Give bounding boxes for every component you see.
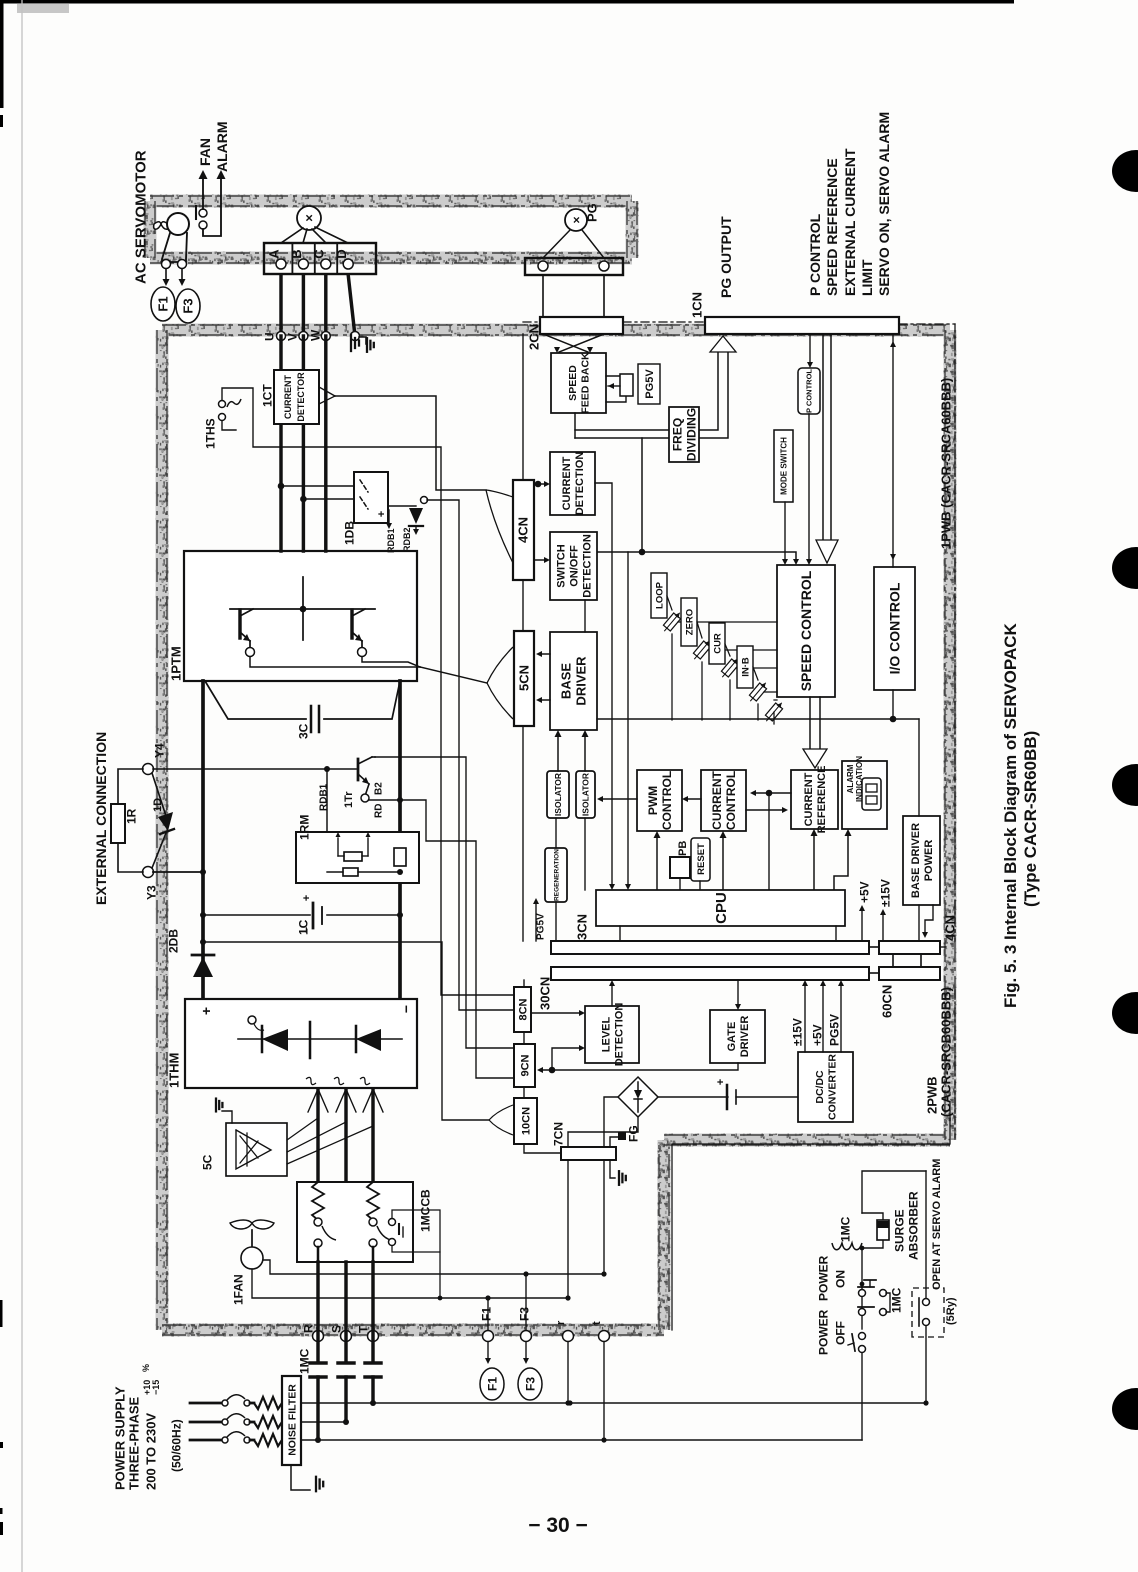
- main minus bus: [398, 681, 402, 999]
- wire RDB2 to 8CN: [427, 500, 514, 1010]
- wire base driver power path: [597, 718, 919, 720]
- 5C earth: [222, 1111, 232, 1123]
- svg-text:×: ×: [569, 216, 583, 223]
- svg-text:EXTERNAL CURRENT: EXTERNAL CURRENT: [842, 148, 858, 296]
- svg-text:FAN: FAN: [197, 138, 213, 166]
- wire 7CN to t terminal: [603, 1160, 605, 1274]
- wire coil top rail: [862, 1171, 926, 1213]
- svg-text:REGENERATION: REGENERATION: [553, 849, 560, 901]
- arrow level detection to 30CN bus: [611, 986, 613, 1006]
- arrow 8CN to level detection: [531, 1012, 581, 1014]
- svg-text:2PWB: 2PWB: [925, 1076, 940, 1114]
- IN-B potentiometer: [737, 646, 753, 688]
- svg-text:PB: PB: [677, 841, 689, 856]
- svg-text:%: %: [141, 1364, 151, 1372]
- svg-text:3CN: 3CN: [575, 914, 590, 940]
- svg-text:FEED BACK: FEED BACK: [580, 352, 592, 414]
- 2PWB edge links: [523, 980, 525, 987]
- arrow current ref to current control: [754, 792, 791, 794]
- 5Ry contact box dashed: [912, 1288, 944, 1337]
- hollow arrow shaft speed feedback to 1CN: [574, 413, 576, 438]
- svg-text:4CN: 4CN: [516, 517, 531, 543]
- 1MCCB breaker box: [297, 1182, 413, 1262]
- 1MCCB aux contact: [389, 1219, 396, 1226]
- wire gate driver to 9CN: [541, 1063, 738, 1070]
- svg-text:1D: 1D: [152, 798, 164, 812]
- FG terminal: [610, 1137, 622, 1147]
- svg-text:1FAN: 1FAN: [231, 1274, 245, 1305]
- connector 5CN bar: [514, 631, 534, 726]
- svg-text:− 30 −: − 30 −: [528, 1514, 588, 1537]
- svg-text:POWER: POWER: [923, 840, 935, 882]
- svg-text:F3: F3: [181, 298, 196, 313]
- svg-text:DETECTION: DETECTION: [582, 534, 594, 598]
- 1THM ac entries: [308, 1089, 328, 1112]
- PG winding circle: [565, 209, 587, 231]
- svg-text:Fig. 5. 3 Internal Block Dia: Fig. 5. 3 Internal Block Diagram of SERV…: [1001, 622, 1020, 1008]
- svg-text:CUR: CUR: [712, 633, 723, 654]
- svg-text:RESET: RESET: [696, 843, 707, 875]
- 1THM diode 2: [355, 1026, 358, 1052]
- 5C phase taps: [287, 1118, 318, 1140]
- 1PTM collector rail: [230, 608, 375, 610]
- motor enclosure border: [150, 195, 632, 208]
- main plus bus nodes: [200, 869, 206, 875]
- svg-text:AC SERVOMOTOR: AC SERVOMOTOR: [132, 150, 149, 284]
- wire C-W: [324, 275, 327, 330]
- wire Y3 to plus bus: [153, 871, 203, 873]
- +5V arrow right: [861, 911, 863, 941]
- svg-text:DIVIDING: DIVIDING: [684, 408, 698, 461]
- svg-text:R: R: [301, 1324, 315, 1333]
- svg-text:1THS: 1THS: [203, 418, 217, 449]
- wires 1MCCB to 1MC: [316, 1262, 319, 1360]
- svg-text:30CN: 30CN: [538, 977, 553, 1010]
- 9CN connector box: [514, 1044, 535, 1087]
- svg-text:ON/OFF: ON/OFF: [569, 545, 581, 587]
- svg-text:FG: FG: [626, 1125, 640, 1142]
- 1FAN wires: [252, 1269, 568, 1298]
- svg-text:ABSORBER: ABSORBER: [906, 1191, 920, 1260]
- 1PTM inverter box: [184, 551, 417, 681]
- svg-text:9CN: 9CN: [520, 1054, 532, 1076]
- battery capacitor symbol: [658, 1096, 728, 1098]
- svg-text:W: W: [308, 329, 322, 341]
- svg-text:RDB1: RDB1: [386, 528, 396, 553]
- motor fan glyph: [162, 223, 168, 225]
- BASE DRIVER POWER box: [903, 816, 940, 905]
- svg-text:+: +: [198, 1007, 214, 1015]
- 1MC contactor contacts: [310, 1361, 326, 1364]
- 1PWB board dashdot top: [523, 321, 540, 323]
- svg-text:DC/DC: DC/DC: [814, 1070, 826, 1104]
- F1 arrow top: [165, 269, 167, 280]
- arrow CPU to CURRENT REFERENCE: [813, 835, 815, 890]
- wire PB to CPU: [679, 878, 681, 890]
- arrow CPU to PWM: [656, 837, 658, 890]
- PG leads to 2CN: [542, 275, 544, 318]
- FAN arrow: [202, 178, 204, 209]
- transistor Q right: [350, 610, 353, 638]
- svg-text:+: +: [376, 511, 388, 517]
- ISOLATOR box 1: [547, 771, 569, 818]
- arrow 30CN bus to gate driver: [737, 980, 739, 1004]
- svg-text:POWER: POWER: [816, 1255, 830, 1301]
- svg-text:LOOP: LOOP: [654, 581, 665, 609]
- svg-text:SERVO ON, SERVO ALARM: SERVO ON, SERVO ALARM: [876, 112, 892, 296]
- resistor 1R: [111, 804, 125, 843]
- wire U into 1PTM: [279, 336, 282, 551]
- svg-text:P CONTROL: P CONTROL: [807, 213, 823, 296]
- connector 2CN bar: [540, 317, 623, 334]
- svg-text:ALARM: ALARM: [846, 764, 855, 793]
- svg-text:SPEED: SPEED: [567, 365, 579, 401]
- surge absorber element: [862, 1240, 883, 1248]
- ALARM arrow: [203, 178, 221, 236]
- svg-text:ZERO: ZERO: [684, 609, 695, 635]
- arrow current control to current ref: [746, 809, 784, 811]
- ZERO potentiometer: [681, 598, 697, 646]
- wire F3 up: [525, 1274, 527, 1330]
- node current loop: [766, 790, 773, 797]
- svg-text:CONTROL: CONTROL: [660, 771, 674, 830]
- supply input wires: [190, 1402, 222, 1405]
- wire F1 up: [487, 1298, 489, 1330]
- svg-text:1MC: 1MC: [889, 1287, 903, 1313]
- 2CN to speed feedback crossing arrows: [543, 334, 588, 352]
- svg-text:(5Ry): (5Ry): [945, 1297, 957, 1325]
- svg-text:CURRENT: CURRENT: [803, 772, 815, 826]
- svg-text:PG: PG: [585, 203, 600, 222]
- connector 1CN bar: [705, 317, 899, 334]
- svg-text:(CACR-SRCB60BBB): (CACR-SRCB60BBB): [939, 987, 954, 1117]
- rotated landscape diagram: [93, 112, 1040, 1491]
- 1PTM cable to 5CN bracket: [420, 667, 487, 683]
- noise filter earth: [291, 1465, 310, 1490]
- svg-text:CONVERTER: CONVERTER: [827, 1054, 839, 1120]
- svg-text:A: A: [267, 249, 282, 259]
- svg-text:1MC: 1MC: [838, 1216, 852, 1242]
- +5V arrow dcdc: [822, 986, 824, 1052]
- svg-text:+5V: +5V: [857, 881, 871, 903]
- svg-text:200 TO 230V: 200 TO 230V: [144, 1413, 159, 1490]
- svg-text:SURGE: SURGE: [892, 1209, 906, 1252]
- arrows base driver to 5CN: [540, 653, 550, 655]
- svg-text:V: V: [285, 333, 299, 341]
- motor winding leads: [281, 228, 303, 243]
- arrow CPU to ALARM INDICATION: [834, 835, 848, 890]
- motor body trapezoid: [162, 233, 187, 262]
- 1MCCB pole 1: [312, 1182, 324, 1220]
- svg-text:CURRENT: CURRENT: [561, 456, 573, 510]
- wire 7CN to r terminal: [567, 1160, 569, 1298]
- 3CN bus bar: [551, 941, 869, 954]
- ISOLATOR box 2: [576, 771, 595, 818]
- 1THM diode 1: [261, 1026, 264, 1052]
- 8CN connector box: [514, 987, 531, 1032]
- 1RM resistor c: [394, 848, 406, 866]
- svg-text:Y4: Y4: [152, 743, 166, 758]
- wire isolator1-regeneration: [555, 818, 557, 848]
- 1THS thermostat: [219, 401, 226, 408]
- svg-text:DRIVER: DRIVER: [574, 656, 589, 706]
- svg-text:DETECTOR: DETECTOR: [296, 372, 306, 422]
- 1PWB board dashdot right: [954, 324, 956, 941]
- svg-text:ISOLATOR: ISOLATOR: [553, 773, 563, 816]
- svg-text:7CN: 7CN: [551, 1122, 565, 1146]
- SPEED CONTROL box: [777, 565, 835, 697]
- 7CN earth: [610, 1160, 615, 1178]
- svg-text:F1: F1: [156, 296, 171, 311]
- PWM CONTROL box: [637, 770, 682, 831]
- svg-text:LIMIT: LIMIT: [859, 259, 875, 296]
- wire D-ground: [348, 275, 355, 336]
- connector 4CN bar: [513, 480, 534, 580]
- 1PWB edge link 2CN-4CN: [522, 334, 524, 480]
- svg-text:CURRENT: CURRENT: [283, 374, 293, 419]
- ground symbol motor lead: [350, 335, 352, 351]
- svg-text:10CN: 10CN: [521, 1107, 533, 1135]
- servopack enclosure border: [162, 324, 950, 337]
- svg-text:DRIVER: DRIVER: [739, 1016, 751, 1058]
- svg-text:CPU: CPU: [713, 892, 730, 924]
- svg-text:LEVEL: LEVEL: [601, 1016, 613, 1052]
- motor winding circle X: [297, 206, 321, 230]
- svg-text:PWM: PWM: [646, 786, 660, 815]
- svg-text:DETECTION: DETECTION: [574, 452, 586, 516]
- svg-text:3C: 3C: [296, 723, 310, 739]
- svg-text:1CT: 1CT: [260, 384, 274, 407]
- svg-text:PG5V: PG5V: [644, 369, 656, 399]
- scan crease line: [21, 0, 23, 1572]
- svg-text:1CN: 1CN: [690, 292, 705, 318]
- svg-text:60CN: 60CN: [880, 985, 895, 1018]
- 1CT cable to 4CN: [335, 396, 486, 490]
- GATE DRIVER box: [710, 1010, 765, 1063]
- 1CT current detector box: [274, 370, 319, 424]
- thyristor RDB2: [388, 505, 416, 507]
- 1CT output Y: [319, 387, 335, 396]
- svg-text:1THM: 1THM: [167, 1053, 182, 1088]
- svg-text:SPEED REFERENCE: SPEED REFERENCE: [824, 158, 840, 296]
- svg-text:−15: −15: [151, 1380, 161, 1395]
- hollow arrow speed control to current reference: [809, 697, 811, 749]
- svg-text:2DB: 2DB: [166, 929, 180, 953]
- 1THS wire: [222, 388, 514, 995]
- bus links between bars: [869, 946, 879, 948]
- R S T border terminals: [313, 1331, 324, 1342]
- svg-text:F1: F1: [485, 1377, 499, 1391]
- REGENERATION box: [545, 848, 567, 902]
- svg-text:(Type CACR-SR60BB): (Type CACR-SR60BB): [1021, 731, 1040, 907]
- svg-text:1RM: 1RM: [297, 815, 311, 840]
- terminal Y3: [143, 867, 154, 878]
- 10CN connector box: [514, 1098, 537, 1144]
- 1THM ac tildes: [306, 1077, 316, 1084]
- capacitor 1C: [203, 914, 310, 916]
- arrow isolator1 to base driver: [557, 736, 559, 771]
- node io control bottom: [892, 690, 894, 719]
- svg-text:2CN: 2CN: [527, 324, 542, 350]
- svg-text:RD: RD: [374, 804, 385, 818]
- motor terminal circles: [162, 260, 171, 269]
- svg-text:I/O CONTROL: I/O CONTROL: [887, 582, 903, 674]
- svg-text:t: t: [591, 1321, 603, 1325]
- scan left black strip: [0, 0, 4, 108]
- svg-text:POWER: POWER: [816, 1309, 830, 1355]
- svg-text:T: T: [356, 1325, 370, 1333]
- svg-text:PG OUTPUT: PG OUTPUT: [718, 216, 734, 298]
- right 4CN bus bar: [879, 941, 940, 954]
- alarm display icon: [862, 778, 881, 810]
- svg-text:±15V: ±15V: [878, 879, 892, 907]
- svg-text:5CN: 5CN: [517, 665, 532, 691]
- wire PG5V tap down to speed control: [641, 438, 643, 552]
- ground symbol frame: [359, 337, 366, 344]
- svg-text:BASE: BASE: [559, 663, 574, 699]
- arrow isolator2 to base driver: [584, 736, 586, 771]
- 1DB dynamic brake box: [354, 472, 388, 523]
- fan thermal contact circles: [199, 209, 207, 217]
- 1FAN fan: [230, 1220, 274, 1229]
- wire 5CN to 3CN board edge: [522, 726, 524, 941]
- 1PTM emitter wires to cable: [250, 657, 420, 667]
- DC/DC CONVERTER box: [798, 1052, 853, 1122]
- wire V into 1PTM: [302, 336, 305, 551]
- svg-text:+: +: [301, 895, 313, 901]
- speed feedback feedback resistor: [606, 375, 626, 377]
- arrow current control to pwm: [686, 798, 701, 800]
- wire A-U: [279, 275, 282, 330]
- transistor 1Tr: [357, 759, 360, 780]
- RDB1 arrow: [388, 510, 390, 524]
- wire current detection output to CPU: [595, 483, 612, 884]
- svg-text:P CONTROL: P CONTROL: [805, 369, 814, 413]
- wire Y4 chopper rail: [153, 768, 356, 770]
- OFF pushbutton: [859, 1333, 866, 1340]
- svg-text:4CN: 4CN: [943, 915, 958, 941]
- wire r down: [567, 1342, 569, 1403]
- wire diamond to 7CN: [604, 1097, 618, 1147]
- CPU to 3CN links: [619, 926, 621, 941]
- svg-text:8CN: 8CN: [518, 998, 530, 1020]
- svg-text:GATE: GATE: [726, 1022, 738, 1052]
- RESET boxed label: [691, 838, 710, 881]
- 1MC aux contact hold: [859, 1309, 866, 1316]
- svg-text:(50/60Hz): (50/60Hz): [169, 1419, 183, 1472]
- PG5V arrow at 3CN: [535, 902, 537, 941]
- wires phases to 1DB: [278, 483, 285, 490]
- arrow pwm output to isolator2: [601, 798, 637, 800]
- svg-text:F3: F3: [523, 1377, 537, 1391]
- registration half dots right edge: [1112, 150, 1138, 192]
- svg-text:ALARM: ALARM: [214, 121, 230, 172]
- F1 F3 border terminals: [483, 1331, 494, 1342]
- svg-text:±15V: ±15V: [790, 1018, 804, 1046]
- wire P CONTROL to speed control: [808, 414, 810, 559]
- 3C capacitor trapezoid: [205, 681, 306, 719]
- svg-text:F3: F3: [517, 1307, 531, 1321]
- svg-text:CURRENT: CURRENT: [710, 771, 724, 830]
- wire switch detection to base driver: [584, 600, 586, 632]
- fuse F3 oval: [176, 289, 200, 323]
- PB pushbutton square: [670, 857, 690, 878]
- arrow 4CN to switch detection: [534, 559, 546, 561]
- svg-text:Y3: Y3: [144, 885, 158, 900]
- 1THM mid bar: [309, 1022, 312, 1058]
- svg-text:×: ×: [302, 214, 317, 222]
- CURRENT DETECTION box: [550, 452, 595, 515]
- svg-text:U: U: [262, 332, 276, 341]
- svg-text:D: D: [334, 249, 349, 258]
- rectifier diamond: [618, 1077, 658, 1117]
- diode 2DB: [201, 681, 205, 999]
- svg-text:1MC: 1MC: [297, 1348, 311, 1374]
- svg-text:1R: 1R: [124, 808, 138, 824]
- svg-text:FREQ: FREQ: [670, 418, 684, 451]
- hollow arrow 1CN to speed control: [822, 334, 824, 540]
- PG5V arrow dcdc: [840, 986, 842, 1052]
- wires 1R external: [118, 769, 143, 804]
- 7CN connector bar: [561, 1147, 616, 1160]
- hollow arrow head at 1CN: [710, 336, 736, 352]
- arrow 4CN to current detection: [534, 483, 546, 485]
- svg-text:PG5V: PG5V: [536, 913, 547, 940]
- svg-text:NOISE FILTER: NOISE FILTER: [286, 1384, 298, 1456]
- svg-text:r: r: [555, 1320, 567, 1325]
- svg-text:ISOLATOR: ISOLATOR: [581, 773, 591, 816]
- svg-text:ON: ON: [833, 1270, 847, 1288]
- 1MCCB pole 2: [367, 1182, 379, 1220]
- 2PWB dashdot border right: [954, 990, 956, 1138]
- FREQ DIVIDING box: [669, 407, 699, 462]
- CPU box: [596, 890, 845, 926]
- svg-text:F1: F1: [479, 1307, 493, 1321]
- wire RESET to CPU: [699, 881, 701, 890]
- BASE DRIVER box: [550, 632, 597, 730]
- svg-text:+5V: +5V: [810, 1024, 824, 1046]
- CURRENT CONTROL box: [701, 770, 746, 831]
- wire t down: [603, 1342, 605, 1440]
- svg-text:−: −: [398, 1005, 414, 1013]
- aux parallel wires: [886, 1293, 890, 1312]
- svg-text:1C: 1C: [296, 919, 310, 935]
- svg-text:+: +: [715, 1079, 727, 1085]
- arrow CPU to CURRENT CONTROL: [722, 837, 724, 890]
- SCR gate circle: [248, 1016, 256, 1024]
- wire DC sense to 10CN: [203, 942, 489, 1120]
- PG5V boxed label: [638, 364, 660, 404]
- terminal Y4: [143, 764, 154, 775]
- wire switch detection to CPU: [627, 552, 629, 884]
- F3 arrow to fuse: [525, 1342, 527, 1358]
- PG terminal block: [525, 258, 623, 275]
- wire regeneration to 3CN: [555, 902, 557, 941]
- 1RM resistor b: [343, 868, 358, 876]
- wire off chain: [861, 1352, 863, 1440]
- 5C surge suppressor box: [226, 1123, 287, 1176]
- right 60CN bus bar: [879, 967, 940, 980]
- SPEED FEED BACK box: [551, 353, 606, 413]
- terminal circles on block: [276, 259, 286, 269]
- P CONTROL small box: [798, 368, 820, 414]
- terminal circles on servopack border: [277, 332, 286, 341]
- PG leads: [543, 230, 570, 258]
- 1RM resistor a: [344, 852, 362, 861]
- MODE SWITCH box: [774, 430, 793, 502]
- SWITCH ON/OFF DETECTION box: [550, 532, 597, 600]
- svg-text:1PTM: 1PTM: [169, 646, 184, 681]
